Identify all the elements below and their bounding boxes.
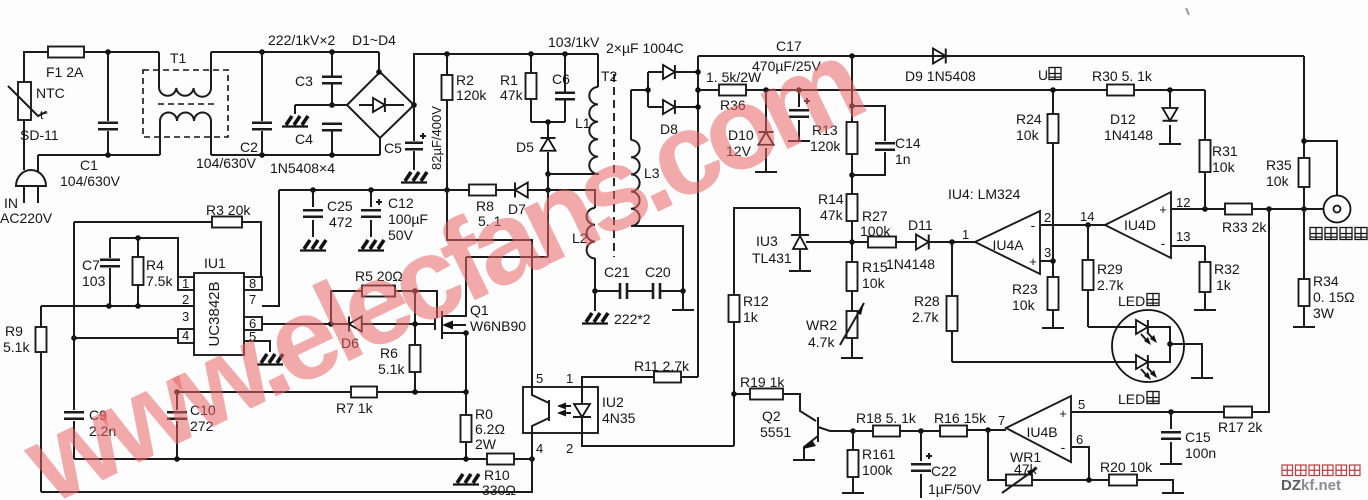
capacitor C5 electrolytic <box>413 105 415 170</box>
wire WR1 to R20 <box>1032 479 1109 481</box>
capacitor C1 <box>107 52 109 155</box>
capacitor C10 <box>176 392 178 459</box>
resistor R31 <box>1200 140 1211 172</box>
wire R36 out <box>746 89 1107 91</box>
wire IU4B pin5 out <box>1071 411 1224 413</box>
svg-text:5: 5 <box>1078 397 1085 412</box>
capacitor C21 <box>620 283 627 299</box>
svg-text:7: 7 <box>249 292 256 307</box>
svg-text:LED: LED <box>1118 293 1145 309</box>
svg-text:R36: R36 <box>720 97 746 113</box>
ground at C25 <box>300 240 326 251</box>
svg-text:+: + <box>1159 202 1167 217</box>
resistor R29 branch <box>1087 225 1089 327</box>
terminal bar C15 <box>1160 463 1182 465</box>
svg-text:L1: L1 <box>575 115 591 131</box>
svg-text:0. 15Ω: 0. 15Ω <box>1313 289 1355 305</box>
svg-text:Q1: Q1 <box>470 302 489 318</box>
svg-text:2: 2 <box>182 292 189 307</box>
wire Vref divider vertical <box>73 222 75 407</box>
svg-text:R15: R15 <box>862 259 888 275</box>
wire LED to bar <box>1170 344 1202 377</box>
svg-text:R23: R23 <box>1012 281 1038 297</box>
wire R3 to pin8 <box>242 222 261 277</box>
junction R6 top D6 wire <box>412 321 418 327</box>
T1 top winding <box>158 52 160 88</box>
svg-text:Q2: Q2 <box>762 408 781 424</box>
svg-text:1N5408×4: 1N5408×4 <box>270 160 335 176</box>
capacitor C22 electrolytic <box>920 431 922 498</box>
wire R8 to D7 <box>496 189 515 191</box>
wire R17 to plug node <box>1252 209 1269 412</box>
junction C12 top <box>368 187 374 193</box>
svg-text:10k: 10k <box>1266 173 1290 189</box>
svg-text:3: 3 <box>182 309 189 324</box>
wire IU2 pin5 up <box>531 240 533 387</box>
junction R5 right <box>412 288 418 294</box>
wire L2 bottom to caps <box>595 290 683 292</box>
wire D8a out <box>675 71 698 73</box>
junction C2 bottom <box>259 152 265 158</box>
svg-text:C2: C2 <box>240 139 258 155</box>
ground at C3 C4 <box>282 116 308 127</box>
wire rectified node vertical <box>697 56 699 377</box>
junction R4 bottom <box>135 303 141 309</box>
label charging plug <box>1310 228 1322 240</box>
svg-text:D1~D4: D1~D4 <box>352 32 396 48</box>
junction D8b <box>695 104 701 110</box>
wire bridge top vertex to rail <box>378 52 380 72</box>
junction R2 top <box>444 51 450 57</box>
capacitor C17 electrolytic <box>798 90 800 140</box>
junction C1 top <box>105 49 111 55</box>
ground stem L2 <box>594 291 596 311</box>
wire R18 to R16 <box>900 430 940 432</box>
svg-text:IN: IN <box>4 195 18 211</box>
resistor WR1 body <box>1006 475 1032 486</box>
IU2 light arrows <box>559 406 571 413</box>
svg-text:R8: R8 <box>476 198 494 214</box>
capacitor C10 plates <box>167 412 187 419</box>
capacitor C7 plates <box>100 260 120 267</box>
svg-text:TL431: TL431 <box>752 250 792 266</box>
svg-text:120k: 120k <box>810 138 841 154</box>
wire D8b out <box>675 106 698 108</box>
capacitor C9 <box>73 407 75 459</box>
svg-text:C15: C15 <box>1185 429 1211 445</box>
svg-text:7.5k: 7.5k <box>146 273 173 289</box>
secondary winding L3 <box>630 90 632 140</box>
capacitor C6 plates <box>555 93 575 100</box>
resistor R23 <box>1048 277 1059 310</box>
wire divider to R27 <box>852 241 868 243</box>
ground stem C3C4 <box>294 105 296 114</box>
junction R8 left <box>444 187 450 193</box>
svg-text:10k: 10k <box>1016 127 1040 143</box>
junction pin3 <box>1050 258 1056 264</box>
capacitor C7 <box>109 238 111 306</box>
junction C25 top <box>310 187 316 193</box>
svg-text:R29: R29 <box>1097 261 1123 277</box>
junction D10 top <box>763 87 769 93</box>
resistor R34 <box>1299 279 1310 306</box>
resistor R28 branch <box>951 242 953 362</box>
resistor R161 <box>848 450 859 477</box>
wire R2 branch <box>446 54 448 190</box>
wire IU4D pin12 <box>1171 208 1225 210</box>
svg-text:C20: C20 <box>645 264 671 280</box>
wire IU2 pin1 up <box>582 377 654 387</box>
resistor R10 <box>487 454 514 465</box>
LED indicator circle <box>1112 310 1184 382</box>
svg-text:470µF/25V: 470µF/25V <box>752 58 821 74</box>
wire R2 bottom to R8 <box>447 189 469 191</box>
wire LED cathodes join <box>1148 327 1170 362</box>
junction R10 right <box>529 456 535 462</box>
svg-text:472: 472 <box>329 214 353 230</box>
svg-text:C10: C10 <box>190 402 216 418</box>
resistor R17 <box>1224 407 1252 418</box>
svg-text:R34: R34 <box>1313 273 1339 289</box>
svg-text:5: 5 <box>536 371 543 386</box>
resistor R4 branch <box>137 238 139 306</box>
resistor R5 <box>362 286 395 297</box>
wire R1 C6 bottoms <box>531 121 565 123</box>
junction D5 L1 bottom <box>545 171 551 177</box>
svg-text:2.2n: 2.2n <box>89 423 116 439</box>
svg-text:13: 13 <box>1176 229 1190 244</box>
wire R30 to R31 <box>1134 89 1205 91</box>
wire fuse to C1 junction <box>84 51 159 53</box>
junction bridge right <box>411 102 417 108</box>
svg-text:UC3842B: UC3842B <box>206 281 223 346</box>
svg-text:7: 7 <box>998 413 1005 428</box>
capacitor C1 plates <box>98 123 118 130</box>
wire bottom rail T1 to bridge <box>211 154 380 156</box>
capacitor C15 plates <box>1161 432 1181 439</box>
wire R29 to red LED <box>1088 326 1136 328</box>
wire L3 top <box>631 89 648 91</box>
svg-text:2×µF 1004C: 2×µF 1004C <box>606 40 684 56</box>
transformer T2 core dashed line <box>613 74 615 257</box>
wire Q1 source down <box>465 333 467 392</box>
svg-text:C17: C17 <box>776 38 802 54</box>
svg-text:-: - <box>1061 439 1066 455</box>
junction source R0 <box>463 389 469 395</box>
svg-text:R33 2k: R33 2k <box>1222 219 1267 235</box>
resistor R161 branch <box>852 431 854 492</box>
IU2 internal LED <box>581 387 583 433</box>
diode D5 symbol <box>541 138 556 151</box>
ground at IU1 pin5 <box>257 354 283 365</box>
svg-text:47k: 47k <box>1014 461 1038 477</box>
diode D9 symbol <box>933 49 946 64</box>
svg-text:6: 6 <box>1076 432 1083 447</box>
ground at L2 <box>582 313 608 324</box>
svg-text:R35: R35 <box>1266 157 1292 173</box>
resistor R33 <box>1225 204 1252 215</box>
svg-text:D11: D11 <box>908 217 933 233</box>
junction R36 left <box>695 87 701 93</box>
resistor R0 branch <box>465 392 467 459</box>
aux winding L2 <box>548 190 595 208</box>
resistor R16 <box>940 426 967 437</box>
svg-text:C1: C1 <box>80 157 98 173</box>
resistor R19 <box>750 389 783 400</box>
transistor Q2 5551 <box>783 394 816 421</box>
wire R27 to D11 <box>896 241 916 243</box>
svg-text:103: 103 <box>82 273 106 289</box>
capacitor C4 plates <box>322 124 342 131</box>
diode D12 symbol <box>1163 108 1178 121</box>
wire IU4A pin2 <box>1040 224 1105 226</box>
svg-text:4: 4 <box>536 441 543 456</box>
svg-text:222/1kV×2: 222/1kV×2 <box>268 32 336 48</box>
junction C22 top <box>918 428 924 434</box>
svg-text:R0: R0 <box>475 406 493 422</box>
wire R24 R23 vertical <box>1052 90 1054 327</box>
wire pin2 net <box>41 305 194 307</box>
svg-text:R7 1k: R7 1k <box>336 400 374 416</box>
svg-text:R5 20Ω: R5 20Ω <box>355 268 403 284</box>
junction C6 top <box>562 51 568 57</box>
junction C2 top <box>259 49 265 55</box>
wire R3 feed <box>74 221 212 223</box>
svg-text:10k: 10k <box>862 275 886 291</box>
wire D11 to IU4A <box>929 241 975 243</box>
svg-text:R14: R14 <box>818 191 844 207</box>
svg-text:1k: 1k <box>1216 277 1232 293</box>
svg-text:D8: D8 <box>660 121 678 137</box>
resistor R4 <box>133 257 144 285</box>
svg-text:104/630V: 104/630V <box>60 173 121 189</box>
svg-text:R2: R2 <box>456 72 474 88</box>
wire IU4B pin6 <box>1071 447 1089 480</box>
svg-text:104/630V: 104/630V <box>196 155 257 171</box>
svg-text:1: 1 <box>182 276 189 291</box>
resistor R20 <box>1109 475 1137 486</box>
capacitor C22 plates <box>911 464 931 471</box>
wire R33 to plug <box>1252 208 1324 210</box>
wire D8a <box>648 71 663 73</box>
svg-text:SD-11: SD-11 <box>20 127 59 143</box>
svg-text:L2: L2 <box>572 230 588 246</box>
svg-text:C25: C25 <box>327 198 353 214</box>
wire AC neutral <box>38 154 160 156</box>
junction C20 right <box>680 288 686 294</box>
transformer T1 dashed box <box>143 70 228 137</box>
svg-text:C4: C4 <box>295 131 313 147</box>
svg-text:IU2: IU2 <box>602 394 624 410</box>
resistor R32 <box>1200 262 1211 292</box>
svg-text:NTC: NTC <box>36 85 65 101</box>
IC IU1 UC3842B body <box>194 273 244 355</box>
bridge rectifier D1-D4 <box>347 72 414 138</box>
wire D8b <box>648 106 663 108</box>
resistor R36 <box>719 85 746 96</box>
junction pin4 vertical <box>71 335 77 341</box>
wire R19 left <box>734 393 750 395</box>
wire bridge + output up <box>414 54 598 105</box>
terminal bar R161 <box>842 492 864 494</box>
wire IU2 pin2 <box>582 433 734 446</box>
terminal bar TL431 anode <box>789 270 811 272</box>
junction C17 top <box>796 87 802 93</box>
svg-text:C14: C14 <box>895 135 921 151</box>
svg-text:5.1k: 5.1k <box>378 361 405 377</box>
transistor Q1 MOSFET W6NB90 <box>434 318 436 330</box>
svg-text:D6: D6 <box>341 335 359 351</box>
svg-text:T2: T2 <box>601 68 618 84</box>
svg-text:AC220V: AC220V <box>0 210 53 226</box>
resistor R27 <box>868 237 896 248</box>
svg-text:47k: 47k <box>820 207 844 223</box>
resistor R30 <box>1107 85 1134 96</box>
junction D6 R5 left <box>328 321 334 327</box>
svg-text:1. 5k/2W: 1. 5k/2W <box>706 69 762 85</box>
wire C20 stub bar <box>682 291 684 309</box>
svg-text:47k: 47k <box>500 87 524 103</box>
capacitor C14 parallel loop <box>852 106 885 175</box>
svg-text:103/1kV: 103/1kV <box>548 34 600 50</box>
resistor R12 <box>729 295 740 322</box>
resistor R2 <box>442 75 453 100</box>
resistor R28 <box>947 296 958 331</box>
wire D8 split vertical <box>647 72 649 107</box>
terminal bar R23 <box>1042 327 1064 329</box>
svg-text:4N35: 4N35 <box>602 410 636 426</box>
svg-text:10k: 10k <box>1212 159 1236 175</box>
svg-text:IU4B: IU4B <box>1026 424 1057 440</box>
svg-text:+: + <box>1029 254 1037 269</box>
resistor R9 <box>36 327 47 352</box>
svg-text:IU4: LM324: IU4: LM324 <box>948 186 1021 202</box>
svg-text:D10: D10 <box>728 127 754 143</box>
LED green symbol <box>1136 355 1148 369</box>
svg-text:5. 1: 5. 1 <box>478 213 502 229</box>
resistor R3 <box>212 217 242 228</box>
svg-text:330Ω: 330Ω <box>482 482 516 498</box>
terminal bar Q2 emitter <box>793 459 815 461</box>
junction D7 node <box>545 187 551 193</box>
capacitor C25 <box>312 190 314 237</box>
ground at R0 <box>453 474 479 485</box>
wire R13 branch <box>851 56 853 357</box>
wire pin feedback R7 rail <box>177 391 351 393</box>
junction D5 top <box>545 119 551 125</box>
terminal bar D12 <box>1159 143 1181 145</box>
junction R28 top <box>949 239 955 245</box>
wire IU2 pin4 down <box>531 433 533 459</box>
svg-text:-: - <box>1161 235 1166 251</box>
svg-text:R3 20k: R3 20k <box>206 202 251 218</box>
junction C14 top <box>849 103 855 109</box>
svg-text:+: + <box>1059 406 1067 421</box>
junction R31 bottom <box>1202 206 1208 212</box>
diode D6 <box>349 317 362 332</box>
svg-text:IU4D: IU4D <box>1124 217 1156 233</box>
capacitor C12 plates <box>361 210 381 217</box>
label LED green hanzi <box>1147 392 1159 404</box>
svg-text:R31: R31 <box>1212 143 1238 159</box>
watermark www.elecfans.com <box>4 15 878 500</box>
junction R13 top rail <box>849 53 855 59</box>
NTC thermistor RT1 <box>18 82 31 120</box>
junction R33 right <box>1266 206 1272 212</box>
svg-text:R9: R9 <box>5 323 23 339</box>
junction L3 top <box>645 87 651 93</box>
charging plug connector <box>1304 141 1337 196</box>
junction plug stem <box>1301 138 1307 144</box>
op-amp IU4B <box>1006 396 1071 462</box>
capacitor C2 plates <box>252 123 272 130</box>
wire snubber zigzag <box>447 190 532 257</box>
resistor R35 <box>1299 158 1310 187</box>
label U charge hanzi <box>1049 68 1061 80</box>
svg-text:5.1k: 5.1k <box>3 339 30 355</box>
svg-text:14: 14 <box>1080 209 1094 224</box>
svg-text:1: 1 <box>962 227 969 242</box>
svg-text:4.7k: 4.7k <box>808 334 835 350</box>
wire R11 to D8 node <box>681 376 698 378</box>
svg-text:R27: R27 <box>862 208 888 224</box>
diode D7 <box>515 183 528 198</box>
junction U-charge <box>1050 87 1056 93</box>
bridge inner diode <box>373 98 385 112</box>
svg-text:LED: LED <box>1118 391 1145 407</box>
junction pin2 14 node <box>1085 222 1091 228</box>
resistor R6 <box>410 345 421 372</box>
resistor R0 <box>461 415 472 442</box>
svg-text:L3: L3 <box>644 165 660 181</box>
diode D8 lower <box>663 100 675 114</box>
junction R35 bottom <box>1301 206 1307 212</box>
svg-text:R12: R12 <box>743 293 769 309</box>
wire pin5 to ground <box>244 341 270 352</box>
junction C15 top <box>1168 409 1174 415</box>
capacitor C5 plates <box>405 143 423 150</box>
resistor R1 <box>526 73 537 99</box>
resistor R24 <box>1048 114 1059 143</box>
svg-text:F1 2A: F1 2A <box>46 64 84 80</box>
diode D12 <box>1169 90 1171 143</box>
svg-text:R13: R13 <box>812 122 838 138</box>
capacitor C25 plates <box>303 210 323 217</box>
junction R161 top <box>850 428 856 434</box>
svg-text:D9 1N5408: D9 1N5408 <box>905 68 976 84</box>
svg-text:12: 12 <box>1176 195 1190 210</box>
svg-text:2.7k: 2.7k <box>912 309 939 325</box>
junction R4 top <box>135 235 141 241</box>
diode D10 symbol <box>759 132 774 145</box>
wire IU4B pin7 node <box>967 429 1006 431</box>
svg-text:IU3: IU3 <box>756 233 778 249</box>
op-amp IU4D <box>1105 192 1171 258</box>
fuse F1 <box>48 47 84 58</box>
junction C10 bottom <box>174 456 180 462</box>
resistor R29 <box>1083 260 1094 290</box>
svg-text:R20 10k: R20 10k <box>1100 459 1153 475</box>
diode D8 upper <box>663 65 675 79</box>
wire drain link <box>466 256 548 258</box>
terminal bar D10 <box>755 171 777 173</box>
svg-text:C12: C12 <box>388 195 414 211</box>
svg-text:R10: R10 <box>484 467 510 483</box>
svg-text:12V: 12V <box>726 143 752 159</box>
svg-text:T1: T1 <box>170 50 187 66</box>
label LED red hanzi <box>1147 294 1159 306</box>
svg-text:2: 2 <box>566 441 573 456</box>
